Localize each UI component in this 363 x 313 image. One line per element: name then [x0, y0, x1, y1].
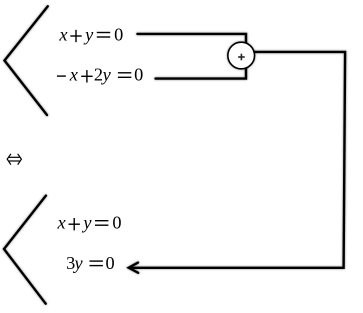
equivalence symbol (double left-right arrow): [7, 154, 21, 165]
svg-text:y: y: [83, 24, 94, 44]
svg-text:2: 2: [94, 65, 103, 85]
svg-text:0: 0: [106, 253, 115, 273]
equation 1: x+y=0 (first system, row 1): [58, 24, 123, 44]
svg-text:0: 0: [114, 24, 123, 44]
svg-text:0: 0: [112, 213, 121, 233]
summing junction circle: [228, 42, 255, 69]
output wire: right from junction, down right side, left along bottom: [133, 52, 346, 268]
svg-text:y: y: [73, 253, 84, 273]
equation 2: -x+2y=0 (first system, row 2): [57, 65, 143, 85]
svg-text:y: y: [81, 213, 92, 233]
svg-text:x: x: [69, 65, 78, 85]
svg-text:x: x: [58, 24, 67, 44]
svg-text:x: x: [57, 213, 66, 233]
svg-text:y: y: [101, 65, 112, 85]
wire from x+y=0 and -x+2y=0 into summing junction: [137, 34, 246, 79]
arrowhead pointing left at 3y=0: [129, 263, 139, 273]
svg-text:0: 0: [134, 65, 143, 85]
brace of second system (bottom-left angle bracket): [4, 196, 46, 304]
plus sign inside summing junction: [238, 54, 245, 61]
brace of first system (top-left angle bracket): [5, 6, 48, 115]
equation 3: x+y=0 (second system, row 1): [57, 213, 122, 233]
equation 4: 3y=0 (second system, row 2): [66, 253, 115, 273]
